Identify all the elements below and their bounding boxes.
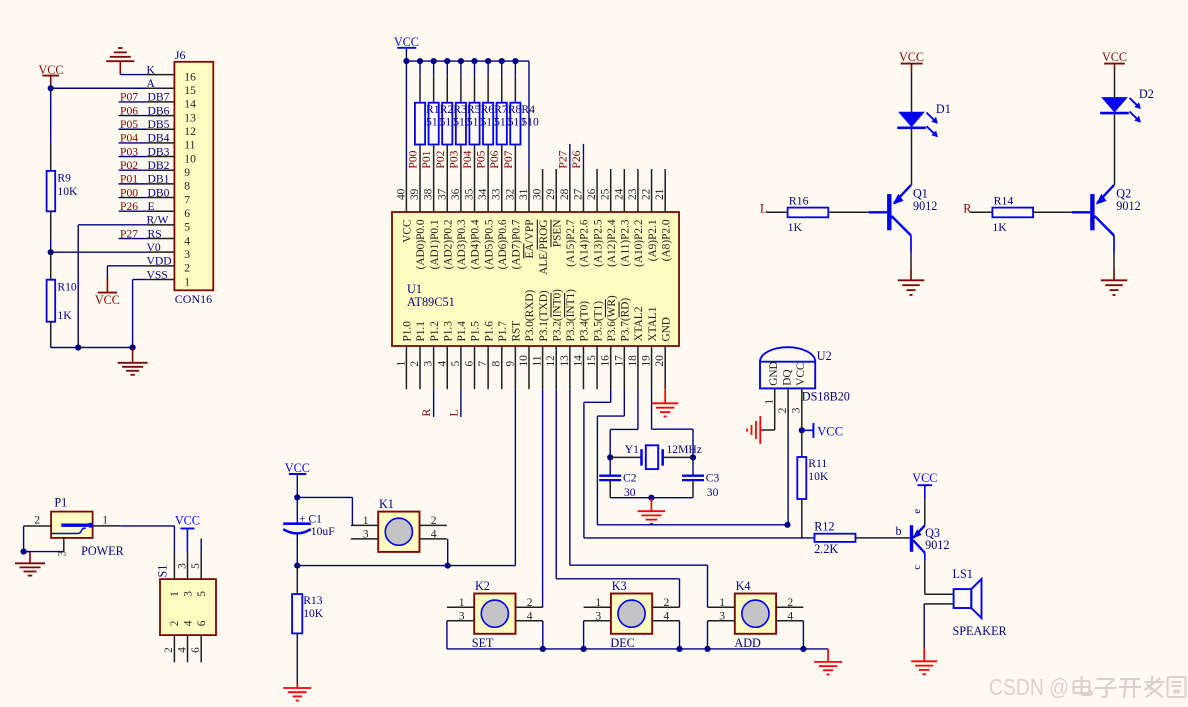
svg-text:V0: V0 <box>147 241 161 254</box>
svg-text:13: 13 <box>184 111 196 124</box>
svg-text:3: 3 <box>791 407 803 413</box>
svg-text:DS18B20: DS18B20 <box>802 390 850 404</box>
svg-text:14: 14 <box>572 355 584 367</box>
svg-text:3: 3 <box>182 591 194 597</box>
svg-text:P00: P00 <box>120 186 138 199</box>
svg-text:5: 5 <box>450 361 462 367</box>
svg-text:4: 4 <box>182 620 194 626</box>
svg-text:(AD7)P0.7: (AD7)P0.7 <box>511 219 523 269</box>
svg-text:DB1: DB1 <box>148 173 170 186</box>
svg-text:10uF: 10uF <box>311 525 335 538</box>
svg-text:DB0: DB0 <box>148 186 170 199</box>
svg-text:VCC: VCC <box>1102 50 1127 64</box>
svg-text:P1: P1 <box>54 496 67 510</box>
svg-text:P01: P01 <box>420 150 433 168</box>
svg-text:DQ: DQ <box>782 369 794 385</box>
svg-text:DB7: DB7 <box>148 91 170 104</box>
svg-text:L: L <box>760 202 767 216</box>
svg-text:16: 16 <box>600 355 612 367</box>
svg-text:21: 21 <box>654 189 666 200</box>
svg-text:3: 3 <box>57 550 69 556</box>
svg-text:2: 2 <box>527 596 533 609</box>
svg-text:10: 10 <box>184 152 196 165</box>
svg-text:ALE/PROG: ALE/PROG <box>538 220 550 275</box>
svg-text:22: 22 <box>641 188 653 200</box>
svg-text:RS: RS <box>148 227 162 240</box>
svg-text:J6: J6 <box>175 48 186 62</box>
svg-text:VCC: VCC <box>402 220 414 243</box>
svg-text:27: 27 <box>572 188 584 200</box>
svg-text:1: 1 <box>459 596 465 609</box>
svg-text:P1.4: P1.4 <box>456 321 468 342</box>
svg-text:8: 8 <box>491 361 503 367</box>
svg-text:P05: P05 <box>475 150 488 168</box>
svg-text:P05: P05 <box>120 118 138 131</box>
svg-text:VCC: VCC <box>285 461 310 475</box>
svg-text:4: 4 <box>436 361 448 367</box>
svg-text:SPEAKER: SPEAKER <box>953 624 1008 638</box>
svg-text:P1.6: P1.6 <box>483 321 495 342</box>
svg-text:(AD4)P0.4: (AD4)P0.4 <box>470 219 482 269</box>
svg-text:P02: P02 <box>120 159 138 172</box>
svg-text:R10: R10 <box>57 280 77 293</box>
svg-text:U1: U1 <box>407 282 422 296</box>
svg-text:2: 2 <box>409 361 421 367</box>
svg-text:P3.2(INT0): P3.2(INT0) <box>551 289 563 342</box>
svg-text:R16: R16 <box>789 194 809 208</box>
svg-text:P3.6(WR): P3.6(WR) <box>606 295 618 341</box>
svg-text:(AD1)P0.1: (AD1)P0.1 <box>429 220 441 270</box>
svg-text:VCC: VCC <box>795 363 807 386</box>
svg-text:DB3: DB3 <box>148 145 170 158</box>
svg-text:4: 4 <box>184 234 190 247</box>
svg-text:P1.2: P1.2 <box>429 321 441 342</box>
svg-text:SET: SET <box>472 636 494 650</box>
svg-text:7: 7 <box>184 193 190 206</box>
svg-text:10K: 10K <box>808 470 829 483</box>
svg-text:VSS: VSS <box>147 268 168 281</box>
svg-text:LS1: LS1 <box>953 567 973 581</box>
svg-text:P03: P03 <box>120 145 138 158</box>
svg-text:RST: RST <box>511 321 523 342</box>
svg-text:A: A <box>147 77 156 90</box>
svg-text:510: 510 <box>521 115 539 128</box>
svg-text:2: 2 <box>431 514 437 527</box>
svg-text:11: 11 <box>532 356 544 367</box>
svg-text:1: 1 <box>395 361 407 367</box>
svg-text:GND: GND <box>660 317 672 341</box>
svg-text:P00: P00 <box>407 150 420 168</box>
svg-text:Y1: Y1 <box>625 443 639 456</box>
svg-text:9012: 9012 <box>913 199 937 213</box>
svg-text:K4: K4 <box>736 579 751 593</box>
svg-text:(AD0)P0.0: (AD0)P0.0 <box>415 219 427 269</box>
svg-text:D1: D1 <box>936 102 951 116</box>
svg-text:DB6: DB6 <box>148 104 170 117</box>
svg-text:1: 1 <box>184 275 190 288</box>
svg-text:P3.5(T1): P3.5(T1) <box>592 301 604 342</box>
svg-text:VDD: VDD <box>147 255 172 268</box>
svg-text:ADD: ADD <box>734 636 761 650</box>
svg-text:3: 3 <box>595 609 601 622</box>
svg-text:36: 36 <box>450 188 462 200</box>
svg-text:R14: R14 <box>994 194 1014 208</box>
svg-text:VCC: VCC <box>95 293 120 307</box>
svg-text:(A8)P2.0: (A8)P2.0 <box>660 219 672 261</box>
svg-text:3: 3 <box>363 527 369 540</box>
svg-text:39: 39 <box>409 188 421 200</box>
svg-text:R/W: R/W <box>147 214 169 227</box>
svg-text:1: 1 <box>595 596 601 609</box>
svg-text:12: 12 <box>545 355 557 367</box>
svg-text:26: 26 <box>586 188 598 200</box>
svg-text:17: 17 <box>613 355 625 367</box>
svg-text:R12: R12 <box>814 520 834 534</box>
svg-text:2: 2 <box>664 596 670 609</box>
svg-text:2.2K: 2.2K <box>814 542 838 556</box>
svg-text:15: 15 <box>184 84 196 97</box>
svg-text:VCC: VCC <box>899 50 924 64</box>
svg-text:5: 5 <box>196 591 208 597</box>
svg-text:(A11)P2.3: (A11)P2.3 <box>620 219 632 266</box>
svg-text:29: 29 <box>545 188 557 200</box>
svg-text:1: 1 <box>719 596 725 609</box>
svg-text:DEC: DEC <box>610 636 634 650</box>
svg-text:4: 4 <box>176 647 188 653</box>
svg-text:P3.1(TXD): P3.1(TXD) <box>538 290 550 341</box>
svg-text:(A13)P2.5: (A13)P2.5 <box>592 219 604 267</box>
svg-text:10K: 10K <box>303 607 324 620</box>
svg-text:P26: P26 <box>570 150 583 168</box>
svg-text:32: 32 <box>504 188 516 200</box>
svg-text:GND: GND <box>768 361 780 385</box>
svg-text:L: L <box>447 409 460 416</box>
svg-text:3: 3 <box>176 563 188 569</box>
svg-text:P02: P02 <box>434 150 447 168</box>
svg-text:P07: P07 <box>502 150 515 168</box>
svg-text:3: 3 <box>459 609 465 622</box>
svg-text:P1.0: P1.0 <box>402 321 414 342</box>
svg-text:POWER: POWER <box>81 544 125 558</box>
svg-text:18: 18 <box>627 355 639 367</box>
svg-text:VCC: VCC <box>175 514 200 528</box>
svg-text:EA/VPP: EA/VPP <box>524 220 536 259</box>
svg-text:R13: R13 <box>303 594 323 607</box>
svg-text:P1.1: P1.1 <box>415 321 427 341</box>
svg-text:37: 37 <box>436 188 448 200</box>
svg-text:15: 15 <box>586 355 598 367</box>
svg-text:16: 16 <box>184 70 196 83</box>
svg-text:DB2: DB2 <box>148 159 170 172</box>
svg-text:25: 25 <box>600 188 612 200</box>
svg-text:P04: P04 <box>120 132 138 145</box>
svg-text:20: 20 <box>654 355 666 367</box>
svg-text:4: 4 <box>431 527 437 540</box>
svg-text:K: K <box>147 63 156 76</box>
svg-text:VCC: VCC <box>912 471 937 485</box>
svg-text:(A14)P2.6: (A14)P2.6 <box>579 219 591 267</box>
svg-text:9: 9 <box>184 166 190 179</box>
svg-text:R4: R4 <box>521 103 535 116</box>
svg-text:1: 1 <box>169 591 181 597</box>
svg-text:3: 3 <box>719 609 725 622</box>
svg-text:12: 12 <box>184 125 196 138</box>
svg-text:34: 34 <box>477 188 489 200</box>
svg-text:19: 19 <box>641 355 653 367</box>
svg-text:4: 4 <box>527 609 533 622</box>
svg-text:P07: P07 <box>120 91 138 104</box>
svg-text:9: 9 <box>504 361 516 367</box>
svg-text:10K: 10K <box>57 185 78 198</box>
svg-text:K1: K1 <box>379 497 394 511</box>
svg-text:U2: U2 <box>817 349 832 363</box>
svg-text:(A9)P2.1: (A9)P2.1 <box>647 220 659 262</box>
svg-text:23: 23 <box>627 188 639 200</box>
svg-text:(AD5)P0.5: (AD5)P0.5 <box>483 219 495 269</box>
svg-text:E: E <box>148 200 155 213</box>
svg-text:2: 2 <box>787 596 793 609</box>
svg-text:(AD2)P0.2: (AD2)P0.2 <box>442 219 454 269</box>
svg-text:14: 14 <box>184 98 196 111</box>
svg-text:30: 30 <box>707 486 719 499</box>
svg-text:6: 6 <box>196 620 208 626</box>
svg-text:13: 13 <box>559 355 571 367</box>
svg-text:40: 40 <box>395 188 407 200</box>
svg-text:P3.0(RXD): P3.0(RXD) <box>524 289 536 341</box>
svg-text:R9: R9 <box>57 172 71 185</box>
svg-text:C3: C3 <box>706 472 720 485</box>
svg-text:10: 10 <box>518 355 530 367</box>
svg-text:9012: 9012 <box>1116 199 1140 213</box>
svg-text:K3: K3 <box>612 579 627 593</box>
svg-text:35: 35 <box>464 188 476 200</box>
svg-text:DB5: DB5 <box>148 118 170 131</box>
svg-text:1K: 1K <box>57 309 72 322</box>
svg-text:2: 2 <box>163 647 175 653</box>
svg-text:3: 3 <box>184 248 190 261</box>
svg-text:CSDN @: CSDN @ <box>989 674 1069 700</box>
svg-text:+ C1: + C1 <box>299 512 322 525</box>
svg-text:1K: 1K <box>788 220 803 234</box>
svg-text:5: 5 <box>190 563 202 569</box>
svg-text:4: 4 <box>664 609 670 622</box>
svg-text:e: e <box>912 509 923 514</box>
svg-text:b: b <box>895 524 901 538</box>
svg-text:(A15)P2.7: (A15)P2.7 <box>565 219 577 267</box>
svg-text:VCC: VCC <box>817 424 843 438</box>
svg-text:(A12)P2.4: (A12)P2.4 <box>606 219 618 267</box>
svg-text:28: 28 <box>559 188 571 200</box>
svg-text:XTAL1: XTAL1 <box>647 307 659 342</box>
svg-text:VCC: VCC <box>394 35 419 49</box>
svg-text:7: 7 <box>477 361 489 367</box>
svg-text:R: R <box>420 409 433 417</box>
svg-text:8: 8 <box>184 180 190 193</box>
svg-text:P1.7: P1.7 <box>497 321 509 342</box>
svg-text:9012: 9012 <box>925 538 949 552</box>
svg-text:AT89C51: AT89C51 <box>407 295 455 309</box>
svg-text:1K: 1K <box>992 220 1007 234</box>
svg-text:P1.5: P1.5 <box>470 321 482 342</box>
svg-text:2: 2 <box>184 262 190 275</box>
svg-text:S1: S1 <box>155 565 169 578</box>
svg-text:PSEN: PSEN <box>551 220 563 248</box>
svg-text:2: 2 <box>777 407 789 413</box>
svg-text:P06: P06 <box>120 104 138 117</box>
svg-text:CON16: CON16 <box>175 292 212 306</box>
svg-text:38: 38 <box>423 188 435 200</box>
svg-text:33: 33 <box>491 188 503 200</box>
svg-text:(AD6)P0.6: (AD6)P0.6 <box>497 219 509 269</box>
svg-text:1: 1 <box>363 514 369 527</box>
svg-text:c: c <box>912 565 923 570</box>
svg-text:P27: P27 <box>120 227 138 240</box>
svg-text:12MHz: 12MHz <box>667 443 702 456</box>
svg-text:6: 6 <box>190 647 202 653</box>
svg-text:P01: P01 <box>120 173 138 186</box>
svg-text:(AD3)P0.3: (AD3)P0.3 <box>456 219 468 269</box>
svg-text:11: 11 <box>184 139 195 152</box>
svg-text:P06: P06 <box>488 150 501 168</box>
svg-text:2: 2 <box>34 513 40 526</box>
svg-text:K2: K2 <box>475 579 490 593</box>
svg-text:P03: P03 <box>447 150 460 168</box>
svg-text:3: 3 <box>423 361 435 367</box>
svg-text:R: R <box>963 202 972 216</box>
svg-text:30: 30 <box>532 188 544 200</box>
svg-text:6: 6 <box>464 361 476 367</box>
svg-text:DB4: DB4 <box>148 132 170 145</box>
svg-text:P3.7(RD): P3.7(RD) <box>620 298 632 342</box>
svg-text:1: 1 <box>764 399 776 405</box>
svg-text:XTAL2: XTAL2 <box>633 306 645 341</box>
svg-text:P3.3(INT1): P3.3(INT1) <box>565 289 577 342</box>
svg-text:31: 31 <box>518 189 530 200</box>
svg-text:P26: P26 <box>120 200 138 213</box>
svg-text:P3.4(T0): P3.4(T0) <box>579 301 591 342</box>
svg-text:6: 6 <box>184 207 190 220</box>
svg-text:(A10)P2.2: (A10)P2.2 <box>633 219 645 267</box>
svg-text:P27: P27 <box>556 150 569 168</box>
svg-text:P1.3: P1.3 <box>442 321 454 342</box>
svg-text:C2: C2 <box>623 472 637 485</box>
svg-text:4: 4 <box>787 609 793 622</box>
svg-text:P04: P04 <box>461 150 474 168</box>
svg-text:1: 1 <box>102 513 108 526</box>
svg-text:2: 2 <box>169 620 181 626</box>
svg-text:D2: D2 <box>1139 87 1154 101</box>
svg-text:24: 24 <box>613 188 625 200</box>
svg-text:R11: R11 <box>808 457 827 470</box>
svg-text:5: 5 <box>184 221 190 234</box>
